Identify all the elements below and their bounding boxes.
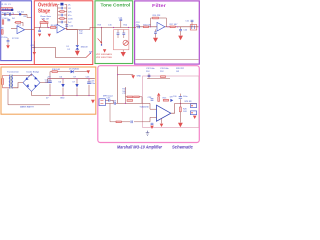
svg-text:D1: D1 [67,46,70,48]
svg-text:D6: D6 [59,82,62,84]
ground bypass [33,52,36,55]
resistor R8 [50,27,55,29]
overdrive stage box (red) [34,1,93,65]
wire tone out [133,27,136,29]
capacitor C29 below op-amp [151,122,154,124]
svg-text:Filter: Filter [152,3,166,9]
svg-text:C30: C30 [173,96,178,98]
wire step bypass [32,48,86,58]
svg-text:GND: GND [137,75,142,77]
svg-text:1W: 1W [176,71,179,73]
capacitor C6 to ground [39,28,41,30]
wire overdrive out to tone [67,28,97,30]
op-amp U1A [17,26,25,34]
chassis ground symbol [146,131,150,136]
bridge diode 4 [34,85,37,88]
svg-text:D7: D7 [73,82,76,84]
svg-text:IC1: IC1 [18,24,22,26]
output connector filter [190,25,197,30]
switch SW1 [61,3,64,5]
svg-text:D2: D2 [68,49,71,51]
svg-text:25V: 25V [160,71,164,73]
wire bottom bus extending left from overdrive box [0,64,34,66]
cap C22 [49,79,51,96]
wire overdrive input rail [34,27,57,29]
feedback network bottom [110,103,150,121]
wire transformer to bridge [13,74,32,88]
rung resistor R11 [60,18,64,20]
IC block [11,9,13,11]
svg-text:C25: C25 [107,98,112,100]
svg-text:VR3 10KB TREB: VR3 10KB TREB [96,57,112,59]
wire to op-amp [11,28,17,30]
node [101,44,102,45]
wire mix column [125,87,127,103]
svg-text:R13: R13 [98,25,103,27]
resistor R6 vertical [2,30,4,35]
wire tone input rail [97,27,134,29]
wire stub to ground [33,41,35,52]
node rail junctions [49,78,50,79]
wire below op-amp [155,29,157,31]
diode D6 [62,79,64,96]
wire op-amp output [65,28,78,31]
svg-text:C5 10u: C5 10u [1,37,7,39]
node output [66,29,67,30]
wire return bottom [8,89,50,105]
resistor R18 [52,71,57,73]
svg-text:470u: 470u [91,83,95,85]
op-amp power IC3 [157,105,171,121]
mains plug [2,79,4,85]
resistor R26 below output [180,107,182,112]
svg-text:+9V: +9V [47,77,51,79]
svg-text:R17 4K7: R17 4K7 [170,24,179,26]
svg-text:C27: C27 [122,93,127,95]
supply filter wire [147,73,170,78]
ground tone left [103,49,106,52]
svg-text:IN: IN [5,4,8,6]
wire drop to amp [27,14,32,17]
potentiometer VR1 [40,22,48,24]
bridge diode 2 [34,77,37,80]
ground clipping [76,49,78,52]
diode D8 [170,99,173,102]
svg-text:R4: R4 [12,18,15,20]
wire supply branch [118,74,134,76]
power arrow up [157,93,160,96]
capacitor C30 above output [179,94,181,104]
feedback wire filter [151,18,167,27]
svg-text:C32 100n: C32 100n [146,68,155,70]
switch SW2 [86,54,90,58]
rung capacitor C7 [58,7,67,9]
connector J1 [1,8,13,11]
rail positive [48,78,95,80]
ground filter 1 [153,38,158,43]
capacitor C11 on rail [65,24,68,26]
capacitor C32 [148,74,151,76]
node [113,27,114,28]
ground below op-amp 1 [150,126,154,129]
svg-text:C1: C1 [8,4,11,6]
wire resistor row [126,97,143,104]
svg-text:10K: 10K [68,11,72,13]
power amp inner box (pale pink) [143,76,199,128]
rung resistor R10 [60,11,64,13]
svg-text:100K: 100K [68,18,73,20]
capacitor C17 [122,32,125,34]
cap C23 [88,79,90,96]
capacitor C31 [130,121,132,124]
ground tone stack [122,50,124,52]
svg-text:Stage: Stage [38,8,50,14]
wire input rail [2,13,28,15]
svg-text:MAINS EARTH: MAINS EARTH [20,106,34,109]
svg-text:D6: D6 [60,77,63,79]
wire jack out 2 [105,102,150,104]
feedback resistor R16 [153,17,159,19]
node [128,27,129,28]
resistor R27 [116,121,121,123]
svg-text:D5 1N4001: D5 1N4001 [69,69,80,71]
ground supply branch [131,75,135,79]
connector MP3 jack [99,99,105,106]
svg-text:C15: C15 [108,25,113,27]
op-amp input wires [150,103,157,121]
node [117,74,118,75]
svg-text:TDA2030: TDA2030 [139,105,149,108]
svg-text:C23: C23 [91,80,96,82]
svg-text:R7 22K: R7 22K [12,38,19,40]
svg-text:1K: 1K [68,4,71,6]
ground top branch [87,70,90,73]
ground speaker [193,116,197,119]
capacitor C14 [119,18,122,20]
feedback resistor R5 [16,21,21,23]
svg-text:C20: C20 [183,29,188,31]
diode D7 [76,79,78,96]
feedback wire [14,22,23,26]
svg-text:2n2: 2n2 [68,22,72,24]
svg-text:C26: C26 [112,100,117,102]
resistor R22 [134,96,140,98]
svg-text:Diode Bridge: Diode Bridge [27,71,40,74]
ground output network [178,123,183,127]
ground supply [91,100,95,104]
capacitor C2 [19,13,21,15]
svg-text:R18 10R: R18 10R [52,69,60,71]
capacitor C20 to ground [180,27,182,29]
resistor R23 [127,100,133,102]
ground near op-amp [48,34,51,37]
capacitor C1 [4,13,6,16]
filter box (purple) [135,1,200,64]
resistor R17 [170,26,175,28]
tone stack outline [114,30,129,50]
svg-text:C23: C23 [86,77,91,79]
rail return [32,95,95,97]
node on step wire [34,47,35,48]
svg-text:SW: SW [89,51,92,53]
capacitor C2 [9,13,11,16]
resistor R21 [127,96,133,98]
feedback ladder left rail [57,5,59,25]
wire op-amp output to overdrive [25,29,35,31]
svg-text:100n: 100n [183,96,187,98]
svg-text:D7: D7 [74,77,77,79]
resistor R15 [143,26,148,28]
svg-text:R25: R25 [163,97,168,99]
svg-text:1N4148: 1N4148 [81,47,89,49]
svg-text:10R: 10R [183,111,187,113]
bridge diode 3 [26,84,29,87]
node [177,26,178,27]
wire jack out 1 [105,100,113,103]
capacitor C19 [154,31,157,33]
wire tone left branch [101,28,103,46]
svg-text:C21: C21 [185,20,190,22]
bridge rectifier outline [23,74,40,92]
wire output [171,104,197,114]
ground [6,45,10,48]
capacitor C16 [117,32,120,34]
wire to clipping diodes [76,30,78,46]
svg-text:SPK 8R: SPK 8R [184,101,192,103]
speaker terminal 2 [190,111,196,115]
bridge diode 1 [26,77,29,80]
svg-text:Tone Control: Tone Control [101,3,131,8]
clipping diodes D1 D2 [76,45,80,47]
transformer T1 [8,75,11,89]
svg-text:R3: R3 [24,16,27,18]
svg-text:Marshall MG-10 Amplifier: Marshall MG-10 Amplifier [117,145,162,150]
tone control box (green) [95,1,133,64]
input stage box (blue) [1,1,32,61]
node [150,26,151,27]
svg-text:C8: C8 [68,8,71,10]
mains leads [3,75,10,87]
svg-text:2200u: 2200u [45,82,51,84]
ground [38,34,41,37]
ground filter 2 [178,36,183,41]
capacitor C18 [137,25,139,28]
capacitor C4 [7,19,10,21]
capacitor C5 to ground [7,38,9,45]
capacitor C25 [108,99,110,102]
op-amp IC1B [57,24,65,33]
svg-text:47n: 47n [68,15,71,17]
wire top supply branch [50,72,88,79]
wire bridge output [32,79,48,96]
wire filter bottom bus [135,59,198,61]
svg-text:47n: 47n [136,24,139,26]
svg-text:GND: GND [60,98,65,100]
node [167,26,168,27]
svg-text:25V: 25V [146,71,150,73]
svg-text:VR2 10KB BASS: VR2 10KB BASS [96,53,112,56]
svg-text:R6: R6 [1,28,4,30]
node [48,27,49,28]
node [125,103,126,104]
wire op-amp bottom [161,118,163,123]
svg-text:0V: 0V [46,98,49,100]
capacitor C28 above [151,98,154,100]
node [39,27,40,28]
svg-text:Transformer: Transformer [7,71,19,74]
node n1 [13,14,14,15]
rung resistor R9 [58,4,67,6]
svg-text:R14: R14 [124,25,129,27]
pot rotary VR3 [123,40,128,45]
resistor R25 [163,99,168,101]
wire filter rail [136,26,199,28]
svg-text:R16 22K: R16 22K [153,15,161,17]
resistor R24 vertical above op-amp [158,97,160,102]
node output [180,103,181,104]
resistor R28 [161,76,166,78]
power amp box (pink) [98,66,200,143]
power supply box (orange) [1,67,96,114]
wire supply drop [117,66,119,103]
svg-text:C33 100n: C33 100n [160,68,169,70]
svg-text:Schematic: Schematic [172,145,193,150]
resistor R3 vertical [2,20,4,24]
node [101,27,102,28]
svg-text:R28 2R2: R28 2R2 [176,68,185,70]
svg-text:C12: C12 [69,25,74,27]
diode D5 [71,70,74,73]
ground below op-amp 2 [160,124,164,127]
feedback ladder right rail [66,5,68,30]
speaker terminal 1 [190,104,196,108]
pot wiper arrow VR2 [98,38,102,42]
rung capacitor C9 [58,14,67,16]
svg-text:10K: 10K [79,33,83,35]
rung capacitor C10 [58,21,67,23]
capacitor C26 [113,102,115,105]
op-amp IC2 [157,22,165,31]
